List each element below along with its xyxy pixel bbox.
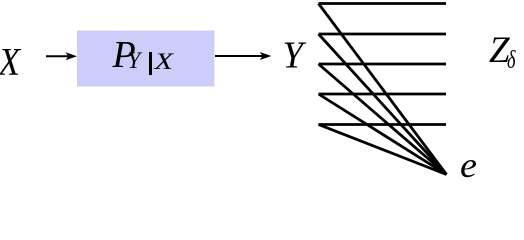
svg-text:X: X	[0, 40, 22, 83]
svg-text:Y: Y	[283, 34, 307, 76]
svg-text:δ: δ	[507, 47, 516, 74]
svg-text:e: e	[460, 145, 477, 178]
svg-text:X: X	[153, 49, 174, 74]
svg-text:Y: Y	[128, 48, 143, 73]
